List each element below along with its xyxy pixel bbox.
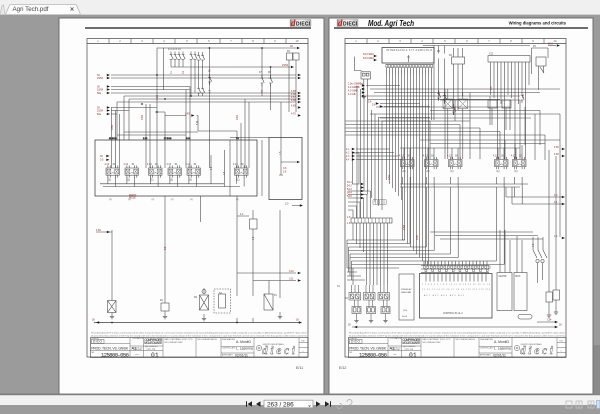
- svg-text:AV1 AV2 AV3 AV4 AV5: AV1 AV2 AV3 AV4 AV5: [424, 294, 464, 297]
- svg-text:×: ×: [70, 7, 74, 14]
- svg-text:Mod. Agri Tech: Mod. Agri Tech: [368, 19, 414, 28]
- svg-text:12 13 14: 12 13 14: [109, 138, 116, 140]
- svg-text:50a: 50a: [97, 92, 102, 95]
- svg-text:C1 C2 C3 C4 C5 C6 C7 C8 C9 C10: C1 C2 C3 C4 C5 C6 C7 C8 C9 C10 C11 C12 C…: [422, 289, 490, 291]
- svg-text:7 8: 7 8: [236, 138, 239, 140]
- svg-text:0.5B: 0.5B: [403, 225, 406, 230]
- svg-text:0.5N: 0.5N: [236, 115, 239, 120]
- svg-text:54.0 GMA: 54.0 GMA: [363, 57, 374, 60]
- svg-text:MOLE: MOLE: [129, 197, 136, 200]
- svg-text:PRESELEZ: PRESELEZ: [401, 289, 412, 291]
- svg-text:0.11: 0.11: [289, 278, 294, 281]
- svg-text:0.5N: 0.5N: [141, 115, 144, 120]
- svg-text:F1 F2 F3 F4: F1 F2 F3 F4: [168, 49, 181, 51]
- svg-text:(2): (2): [236, 199, 239, 201]
- svg-text:4.66: 4.66: [554, 153, 559, 156]
- svg-text:(2): (2): [109, 199, 112, 201]
- svg-text:54.0 GMA: 54.0 GMA: [363, 53, 374, 56]
- svg-text:BOX: BOX: [516, 276, 521, 278]
- svg-text:(2): (2): [171, 199, 174, 201]
- svg-text:0.10: 0.10: [289, 270, 294, 273]
- svg-text:4.69: 4.69: [291, 105, 296, 108]
- svg-text:0.45: 0.45: [185, 113, 190, 116]
- svg-text:4.0 GB: 4.0 GB: [348, 93, 356, 96]
- svg-text:X12: X12: [489, 54, 494, 56]
- svg-text:GIAB DIAB: GIAB DIAB: [401, 291, 412, 294]
- svg-text:54.5: 54.5: [347, 195, 352, 198]
- svg-text:CENTR: CENTR: [499, 276, 507, 278]
- svg-text:15/54: 15/54: [282, 64, 289, 67]
- svg-text:1 2 3: 1 2 3: [143, 138, 147, 140]
- svg-text:C34: C34: [547, 319, 552, 322]
- svg-text:INTERFACCIA KIT AGRICOLO: INTERFACCIA KIT AGRICOLO: [386, 49, 432, 52]
- svg-text:17 18 19: 17 18 19: [164, 138, 171, 140]
- svg-text:1 2 3 4 5 6 7 8 9 10 11 12 13: 1 2 3 4 5 6 7 8 9 10 11 12 13 14 15 16 1…: [422, 284, 490, 286]
- svg-text:50.0: 50.0: [548, 43, 553, 46]
- svg-text:15/54: 15/54: [97, 77, 104, 80]
- svg-text:4.68: 4.68: [291, 99, 296, 102]
- svg-text:4.70: 4.70: [291, 113, 296, 116]
- svg-text:50a: 50a: [97, 113, 102, 116]
- svg-text:Agri Tech.pdf: Agri Tech.pdf: [13, 6, 49, 13]
- svg-text:4.65: 4.65: [554, 146, 559, 149]
- svg-text:(2): (2): [152, 199, 155, 201]
- svg-text:0.5A: 0.5A: [388, 175, 391, 180]
- svg-text:1.5R: 1.5R: [156, 95, 159, 100]
- svg-text:Wiring diagrams and circuits: Wiring diagrams and circuits: [509, 21, 567, 26]
- svg-text:4 5 6: 4 5 6: [186, 138, 190, 140]
- svg-text:E/11: E/11: [296, 366, 303, 370]
- svg-text:(2): (2): [190, 199, 193, 201]
- svg-text:E/12: E/12: [339, 366, 346, 370]
- svg-text:0.5N: 0.5N: [111, 125, 114, 130]
- svg-text:(3.0): (3.0): [403, 310, 407, 312]
- svg-text:30.00: 30.00: [402, 316, 408, 318]
- svg-text:CONTROL PL.2L.2: CONTROL PL.2L.2: [443, 313, 463, 315]
- svg-text:0.5C: 0.5C: [416, 235, 419, 240]
- svg-text:4.50: 4.50: [96, 229, 101, 232]
